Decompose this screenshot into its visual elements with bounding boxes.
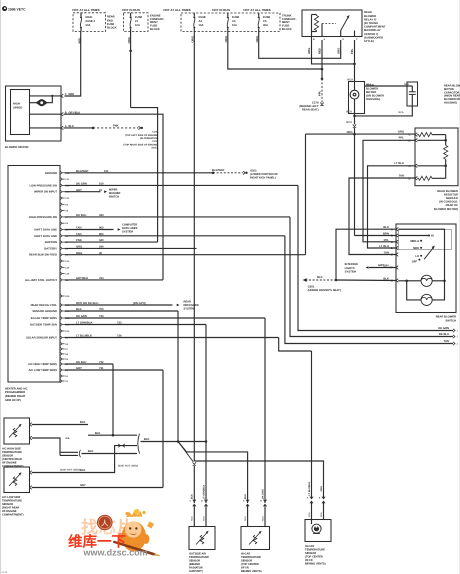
- svg-text:BLOWER MOTOR: BLOWER MOTOR: [5, 145, 29, 149]
- svg-text:HIGH: HIGH: [13, 102, 20, 105]
- programmer pin row spare y204.3: [60, 203, 69, 207]
- svg-text:SHIFT DATA LINE: SHIFT DATA LINE: [34, 235, 57, 238]
- wire relay pin B to pin C junction: [312, 40, 356, 65]
- programmer pin row spare y331.0: [60, 329, 70, 333]
- outside sensor leads: [194, 505, 206, 527]
- switch inner contact area box: [399, 230, 452, 250]
- outside sensor lead connectors: [189, 500, 207, 507]
- programmer pin row spare y359.0: [60, 357, 69, 361]
- svg-text:DK BLU: DK BLU: [76, 214, 86, 217]
- resistor module bus lower: [417, 159, 447, 178]
- svg-text:BLK: BLK: [76, 308, 82, 311]
- svg-text:HOT AT ALL TIMES: HOT AT ALL TIMES: [72, 8, 99, 12]
- label INTERIOR LIGHTS SYSTEM: [345, 263, 358, 273]
- wire motor negative down: [354, 114, 356, 125]
- wire LT BLU module to switch pin D: [368, 166, 416, 248]
- wire WIPER GRY 91: [65, 189, 107, 193]
- svg-text:D15: D15: [65, 295, 70, 298]
- svg-text:MOTOR: MOTOR: [366, 91, 376, 94]
- blower motor inner text: [13, 102, 22, 109]
- svg-text:1995 VETC: 1995 VETC: [8, 7, 26, 11]
- connector stubs right: [453, 329, 459, 346]
- wire capacitor bottom to motor negative: [353, 106, 412, 117]
- resistor R3 (module bottom): [417, 176, 445, 180]
- resistor module pin A: [394, 162, 417, 168]
- svg-text:LO: LO: [415, 255, 419, 258]
- resistor module pin B: [399, 136, 418, 142]
- A/C high side thermistor: [9, 424, 22, 438]
- svg-text:NCA: NCA: [366, 83, 371, 86]
- relay pin letters: [313, 38, 358, 41]
- blower motor inner box: [11, 90, 30, 135]
- svg-text:10A: 10A: [135, 24, 140, 27]
- wire label ORG (fuse C1 output): [191, 36, 195, 42]
- label DK BLU: [439, 333, 449, 336]
- relay pin wire labels rotated: [308, 48, 354, 54]
- fuse A2 10A: [193, 13, 206, 32]
- resistor module pin C: [398, 130, 418, 136]
- ground G302 symbol: [303, 278, 308, 281]
- svg-text:BLK: BLK: [80, 421, 86, 424]
- svg-text:ORG: ORG: [76, 246, 82, 249]
- resistor R2 (module vertical): [444, 145, 448, 159]
- label REAR BLOWER RELAY E: [364, 11, 386, 43]
- relay coil: [312, 15, 323, 37]
- wire A/C high top BLK: [32, 421, 88, 424]
- label NCA motor negative: [346, 111, 352, 114]
- programmer pin row SHIFT DATA LINE y229.5: [34, 228, 69, 232]
- svg-text:LT BLU/BLK: LT BLU/BLK: [76, 335, 92, 338]
- svg-text:TAN: TAN: [76, 233, 81, 236]
- svg-text:TAN: TAN: [76, 227, 81, 230]
- svg-text:SYSTEM: SYSTEM: [122, 230, 134, 233]
- svg-text:A: A: [307, 497, 309, 500]
- svg-text:BLOCK: BLOCK: [150, 28, 160, 31]
- svg-text:NCA: NCA: [261, 516, 264, 521]
- programmer pin row spare y381.0: [60, 379, 69, 383]
- svg-text:151: 151: [104, 170, 109, 173]
- wire BATTERY ORG: [65, 246, 197, 249]
- wire REAR DEFOG WHT OR DK BLU: [65, 302, 180, 306]
- svg-text:(SUBWOOFER: (SUBWOOFER: [364, 36, 383, 39]
- wire ORG feed to aspirator: [194, 461, 323, 498]
- svg-text:BEHIND VENTS): BEHIND VENTS): [241, 570, 262, 573]
- label G303: [250, 170, 278, 180]
- wire ORG horizontal to resistor module: [306, 128, 416, 134]
- connector C278: [320, 103, 323, 106]
- programmer pin row LOW PRESSURE SW y185.4: [29, 184, 70, 188]
- svg-text:MAXI: MAXI: [86, 16, 93, 19]
- svg-text:C6: C6: [263, 20, 267, 23]
- svg-text:COMPARTMENT: COMPARTMENT: [364, 26, 386, 29]
- svg-text:B: B: [391, 235, 393, 238]
- svg-text:RED: RED: [69, 93, 75, 96]
- svg-text:BLOWER MOTOR): BLOWER MOTOR): [434, 208, 458, 211]
- svg-text:BLK/WHT: BLK/WHT: [212, 169, 225, 172]
- switch contact LO: [415, 255, 422, 258]
- in-car thermistor: [249, 531, 262, 545]
- aspirator leads: [312, 502, 324, 520]
- svg-text:MED: MED: [413, 247, 419, 250]
- svg-text:NCA: NCA: [308, 512, 311, 517]
- svg-text:RIGHT KICK PANEL): RIGHT KICK PANEL): [250, 177, 276, 180]
- svg-text:DK GRN: DK GRN: [438, 327, 449, 330]
- svg-text:GROUND: GROUND: [45, 172, 57, 175]
- outside air thermistor: [196, 531, 209, 545]
- wire PPL module to switch pin C: [363, 140, 415, 242]
- fuse A3 10A: [227, 13, 240, 32]
- wire switch pin A internal: [398, 229, 444, 281]
- svg-text:FUSE: FUSE: [199, 16, 206, 19]
- programmer pin row A/C HIGH TEMP SENS y364.0: [28, 362, 69, 366]
- svg-text:LT BLU: LT BLU: [379, 245, 389, 248]
- svg-text:HI: HI: [431, 235, 434, 238]
- svg-text:PPL: PPL: [399, 136, 405, 139]
- svg-text:PPL: PPL: [351, 48, 354, 54]
- logo 1995 VETC: [2, 6, 26, 11]
- wire A/C low bottom GRY: [32, 484, 163, 487]
- svg-text:PPL: PPL: [384, 239, 390, 242]
- wire fuse C1 long vertical: [193, 32, 195, 462]
- inline connector on outside sensor wire: [193, 462, 196, 503]
- wire TAN module to connector: [285, 236, 453, 344]
- svg-text:SENSOR GROUND: SENSOR GROUND: [32, 310, 57, 313]
- label C278 BEHIND LEFT REAR SEAT: [299, 102, 319, 112]
- svg-text:4.9L: 4.9L: [65, 437, 70, 440]
- programmer pin row IGNITION y242.1: [45, 240, 69, 244]
- switch pin E: [384, 252, 399, 257]
- svg-text:C14: C14: [65, 260, 70, 263]
- svg-text:(IN CONSOLE,: (IN CONSOLE,: [439, 201, 458, 204]
- wire LOW PRESSURE DK GRN: [65, 183, 298, 186]
- fuse block A dashed box: [73, 13, 106, 32]
- svg-text:BLK: BLK: [191, 494, 194, 499]
- wire switch pin G internal to lamps: [398, 280, 408, 283]
- svg-text:A: A: [324, 38, 326, 41]
- svg-text:www.dzsc.com: www.dzsc.com: [83, 548, 148, 558]
- fuse 21 10A: [130, 13, 143, 32]
- svg-text:NCA: NCA: [244, 516, 247, 521]
- wire TAN module to switch pin E: [349, 178, 415, 255]
- label TAN: [444, 340, 449, 343]
- svg-text:SYSTEM: SYSTEM: [345, 270, 357, 273]
- label HOT AT ALL TIMES (fuse C3): [243, 8, 270, 12]
- svg-text:B: B: [319, 497, 321, 500]
- wire bracket1 out: [65, 437, 137, 454]
- capacitor symbol: [409, 86, 416, 106]
- svg-text:J: J: [457, 343, 459, 346]
- svg-text:(UNDER DRIVER'S SEAT): (UNDER DRIVER'S SEAT): [308, 289, 341, 292]
- svg-text:C10: C10: [65, 197, 70, 200]
- svg-text:D6: D6: [65, 353, 69, 356]
- svg-text:OUTSIDE TEMP SEN: OUTSIDE TEMP SEN: [30, 324, 57, 327]
- label NCA incar B: [261, 516, 264, 521]
- svg-text:ORG: ORG: [76, 252, 82, 255]
- svg-text:G302: G302: [308, 285, 315, 288]
- wire DK GRN module to connector: [298, 185, 453, 330]
- wire fuse A to blower pin C: [65, 32, 81, 97]
- svg-text:SHIFT DATA LINE: SHIFT DATA LINE: [34, 229, 57, 232]
- switch pin A: [383, 226, 398, 231]
- svg-text:736: 736: [117, 335, 122, 338]
- svg-text:BLK: BLK: [144, 438, 150, 441]
- wire HIGH PRESSURE DK BLU: [65, 214, 290, 217]
- wire GROUND BLK/WHT to G303: [65, 169, 243, 174]
- aspirator motor symbol: [312, 520, 322, 534]
- wire IGNITION PNK: [65, 239, 158, 242]
- wire label ORG (fuse C3 output): [255, 36, 259, 42]
- label NCA outside B: [202, 516, 205, 521]
- blower pin A: [61, 125, 74, 130]
- svg-text:RED: RED: [319, 48, 322, 54]
- svg-text:60A: 60A: [86, 24, 91, 27]
- wire label BLK outside: [191, 494, 194, 499]
- svg-text:REAR: REAR: [107, 16, 115, 19]
- label REAR BLOWER RESISTOR MODULE: [434, 190, 458, 211]
- svg-text:DK GRN: DK GRN: [76, 315, 87, 318]
- fuse MAXI FUSE 4 60A: [80, 13, 95, 32]
- outside air temperature sensor box: [189, 527, 215, 550]
- label S267b: [118, 464, 138, 467]
- label IN-CAR TEMPERATURE SENSOR (aspirator): [305, 545, 326, 566]
- svg-text:FUSE: FUSE: [135, 16, 142, 19]
- relay switch arm: [341, 15, 355, 37]
- watermark brand text: [68, 534, 126, 551]
- label HOT AT ALL TIMES (fuse block A): [72, 8, 99, 12]
- svg-text:REAR BLW SW FEED: REAR BLW SW FEED: [29, 254, 57, 257]
- svg-text:40: 40: [99, 252, 103, 255]
- programmer pin row spare y223.2: [60, 222, 69, 226]
- svg-text:DK GRN: DK GRN: [261, 489, 264, 499]
- svg-text:WHT OR DK BLU: WHT OR DK BLU: [76, 302, 98, 305]
- splice bracket 1: [79, 450, 80, 457]
- svg-text:NCA: NCA: [191, 516, 194, 521]
- programmer pin row spare y348.9: [60, 347, 69, 351]
- svg-text:10A: 10A: [199, 24, 204, 27]
- wire fuse B down: [129, 32, 132, 108]
- corner text: [2, 571, 8, 574]
- svg-text:BLK: BLK: [95, 432, 101, 435]
- svg-text:D: D: [342, 38, 344, 41]
- wire A/C LOW GRY 731: [65, 367, 163, 487]
- svg-text:ENG: ENG: [107, 19, 113, 22]
- wire label PPL rotated (C278): [319, 90, 322, 96]
- programmer pin row spare y198.0: [60, 196, 70, 200]
- fuse block B dashed box: [124, 13, 149, 32]
- switch pin G: [383, 278, 398, 283]
- wire label ORG (fuse B output): [127, 37, 131, 43]
- svg-text:BLOCK: BLOCK: [282, 28, 292, 31]
- label COMPUTER DATA LINES SYSTEM: [122, 223, 138, 233]
- programmer pin row spare y296.0: [60, 294, 70, 298]
- svg-text:C15: C15: [65, 266, 70, 269]
- svg-text:BLOWER: BLOWER: [364, 15, 376, 18]
- svg-text:BLK: BLK: [317, 276, 323, 279]
- programmer pin row SOLAR SENSOR INPUT y337.5: [26, 336, 69, 340]
- svg-text:PNK: PNK: [113, 125, 119, 128]
- svg-text:D10: D10: [65, 330, 70, 333]
- svg-text:30A: 30A: [263, 24, 268, 27]
- svg-text:IGNITION: IGNITION: [45, 241, 57, 244]
- svg-text:(4.9L): (4.9L): [152, 147, 159, 150]
- illumination lamp 2: [407, 281, 445, 306]
- svg-text:D1: D1: [65, 380, 69, 383]
- programmer pin row A/C LOW TEMP SENS y370.0: [28, 368, 68, 372]
- switch pin B: [383, 233, 398, 238]
- svg-text:RESISTOR: RESISTOR: [444, 193, 458, 196]
- wire relay pin C to motor: [354, 40, 356, 82]
- svg-text:LIGHTS: LIGHTS: [345, 267, 355, 270]
- svg-text:HOUSING): HOUSING): [444, 102, 457, 105]
- programmer pin row OUTSIDE TEMP SEN y324.5: [30, 323, 70, 327]
- switch pin C: [384, 239, 399, 244]
- svg-text:SWITCH: SWITCH: [445, 319, 456, 322]
- wire blower pin A to C100: [64, 125, 139, 130]
- programmer pin row SENSOR GROUND y311.0: [32, 309, 70, 313]
- svg-text:540: 540: [99, 246, 104, 249]
- svg-text:(ON BLOWER: (ON BLOWER: [366, 95, 384, 98]
- svg-text:J: J: [457, 330, 459, 333]
- label REAR BLOWER SWITCH: [436, 316, 456, 323]
- svg-text:732: 732: [99, 361, 104, 364]
- programmer pin row spare y261.0: [60, 259, 70, 263]
- wire fuse B to ignition pin: [131, 108, 158, 243]
- svg-text:GRY: GRY: [378, 264, 384, 267]
- wire blower pin B to programmer: [64, 114, 164, 280]
- svg-text:PPL: PPL: [319, 90, 322, 96]
- programmer pin row spare y273.6: [60, 272, 70, 276]
- label HOT IN RUN (fuse C2): [212, 8, 230, 12]
- programmer pin row REAR DEFOG CTRL y305.0: [31, 303, 70, 307]
- programmer pin row HIGH PRESSURE SW y216.9: [29, 215, 69, 219]
- svg-text:(BEHIND RIGHT: (BEHIND RIGHT: [5, 395, 26, 398]
- label REAR BLOWER MOTOR: [366, 84, 384, 101]
- label NCA asp B: [320, 512, 323, 517]
- relay box: [302, 10, 362, 37]
- svg-text:NCA: NCA: [399, 111, 404, 114]
- svg-text:C: C: [409, 134, 411, 137]
- switch pin D: [379, 245, 398, 250]
- svg-text:ALL-WAY STRL OUTPUT: ALL-WAY STRL OUTPUT: [25, 279, 58, 282]
- front blower motor symbol: [30, 95, 54, 106]
- svg-text:733: 733: [117, 322, 122, 325]
- svg-text:SOLAR SENSOR INPUT: SOLAR SENSOR INPUT: [26, 337, 57, 340]
- svg-text:WIPER ON INPUT: WIPER ON INPUT: [34, 191, 57, 194]
- svg-text:HOT AT ALL TIMES: HOT AT ALL TIMES: [163, 8, 190, 12]
- svg-text:GRY: GRY: [80, 484, 86, 487]
- svg-text:STYLE): STYLE): [364, 40, 374, 43]
- switch rotor arm: [424, 246, 435, 260]
- svg-text:FUSE: FUSE: [107, 23, 114, 26]
- svg-text:PNK: PNK: [76, 239, 82, 242]
- switch pin F: [383, 265, 398, 270]
- resistor module internal bus: [417, 135, 447, 146]
- A/C low side thermistor: [9, 472, 22, 486]
- label GRY F: [378, 264, 392, 270]
- label BLOWER MOTOR: [5, 145, 29, 149]
- svg-text:DK BLU: DK BLU: [76, 361, 86, 364]
- label NCA outside A: [191, 516, 194, 521]
- label HOT IN RUN (fuse block B): [122, 8, 140, 12]
- label A/C HIGH SIDE TEMPERATURE SENSOR: [2, 447, 24, 468]
- label S267: [60, 469, 80, 472]
- svg-text:HOT AT ALL TIMES: HOT AT ALL TIMES: [243, 8, 270, 12]
- A/C high side temperature sensor box: [4, 418, 30, 444]
- svg-text:MAXI/RELAY: MAXI/RELAY: [364, 29, 381, 32]
- svg-text:HOUSING): HOUSING): [366, 98, 380, 101]
- fuse C6 30A: [258, 13, 271, 32]
- splice bracket 2: [138, 434, 140, 454]
- svg-text:HOT IN RUN: HOT IN RUN: [122, 8, 140, 12]
- svg-text:DK GRN: DK GRN: [76, 183, 87, 186]
- wire DK BLU module to connector: [290, 217, 453, 337]
- wire relay pin A to C278: [321, 40, 324, 103]
- svg-text:ORG: ORG: [320, 486, 323, 492]
- connector C100: [139, 126, 144, 129]
- svg-text:BLK: BLK: [88, 450, 94, 453]
- label BLK (G302 wire): [317, 276, 323, 279]
- label G302 UNDER DRIVERS SEAT: [308, 285, 341, 292]
- svg-text:C249: C249: [2, 571, 8, 574]
- label NCA above motor: [347, 79, 353, 82]
- svg-text:340: 340: [99, 239, 104, 242]
- programmer pin row WIPER ON INPUT y191.7: [34, 190, 70, 194]
- switch contact HI: [398, 235, 434, 238]
- svg-text:SYSTEM: SYSTEM: [184, 308, 196, 311]
- svg-text:21: 21: [135, 20, 138, 23]
- svg-text:C: C: [391, 241, 393, 244]
- label REAR ENG FUSE BLOCK: [107, 16, 117, 30]
- svg-text:C8: C8: [65, 210, 69, 213]
- svg-text:BLK/WHT: BLK/WHT: [76, 170, 89, 173]
- programmer pin row SHIFT DATA LINE y235.8: [34, 234, 69, 238]
- programmer pin row spare y210.6: [60, 209, 69, 213]
- svg-text:(RN GYN): (RN GYN): [133, 302, 146, 305]
- svg-text:(IN TRUNK: (IN TRUNK: [364, 22, 378, 25]
- svg-text:(S267 NOT USED): (S267 NOT USED): [118, 464, 138, 467]
- rear blower motor box: [349, 82, 365, 114]
- wire switch pin A to G302: [336, 229, 396, 280]
- label NCA below motor: [346, 121, 352, 124]
- svg-text:A3: A3: [232, 20, 236, 23]
- wire switch pin F to interior lights: [366, 266, 396, 269]
- watermark faded text: [81, 518, 134, 537]
- node ORG junction: [353, 133, 356, 136]
- wire label PNK aspirator: [320, 486, 323, 492]
- svg-text:PROGRAMMER: PROGRAMMER: [5, 391, 25, 394]
- svg-text:CENTER I): CENTER I): [364, 33, 378, 36]
- aspirator sensor box: [305, 520, 331, 542]
- wire REAR BLW SW FEED ORG: [65, 134, 306, 255]
- watermark url: [83, 548, 148, 558]
- wire ALL-WAY GRY/BLK: [65, 277, 163, 280]
- svg-text:REAR DEFOG CTRL: REAR DEFOG CTRL: [31, 304, 58, 307]
- svg-text:BLK: BLK: [80, 469, 86, 472]
- blower motor outer box: [6, 86, 62, 141]
- label HEATER AND A/C PROGRAMMER: [5, 387, 28, 401]
- watermark mascot: [113, 509, 161, 556]
- svg-text:FUSE: FUSE: [263, 16, 270, 19]
- svg-text:BLOWER: BLOWER: [366, 87, 378, 90]
- svg-text:HEATER AND A/C: HEATER AND A/C: [5, 387, 28, 390]
- wire fuse C3 to relay pin D: [259, 32, 341, 59]
- in-car sensor leads: [248, 505, 265, 527]
- relay contact dashed link: [322, 23, 336, 25]
- svg-text:GRY: GRY: [76, 367, 82, 370]
- svg-text:COMPARTMENT): COMPARTMENT): [2, 513, 24, 516]
- wire A/C low top BLK: [32, 444, 137, 473]
- svg-text:REAR OF: REAR OF: [446, 204, 459, 207]
